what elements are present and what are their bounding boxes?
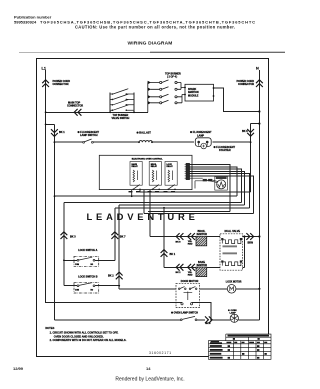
svg-text:LAMP SWITCH: LAMP SWITCH: [80, 134, 98, 137]
svg-text:12/99: 12/99: [13, 366, 24, 371]
svg-text:CONNECTOR: CONNECTOR: [238, 83, 254, 86]
svg-text:BK 7: BK 7: [120, 236, 126, 239]
svg-text:BK 5: BK 5: [206, 323, 212, 325]
svg-text:NO: NO: [91, 289, 94, 291]
svg-text:NO: NO: [91, 264, 94, 266]
svg-text:CAUTION: Use the part number: CAUTION: Use the part number on all orde…: [75, 25, 236, 30]
svg-text:( 2 OF 4 ): ( 2 OF 4 ): [167, 76, 177, 79]
svg-text:LOCK SWITCH B: LOCK SWITCH B: [78, 275, 98, 278]
svg-text:RED: RED: [188, 244, 193, 246]
svg-text:LAMP: LAMP: [197, 134, 204, 137]
svg-text:VALVE SWITCH: VALVE SWITCH: [112, 117, 130, 120]
svg-text:L1: L1: [42, 66, 46, 70]
svg-text:BK 6: BK 6: [242, 130, 248, 133]
svg-text:MODULE: MODULE: [188, 95, 199, 98]
svg-text:LEADVENTURE: LEADVENTURE: [87, 211, 199, 222]
svg-text:OVEN DOOR CLOSED AND UNLOCKED.: OVEN DOOR CLOSED AND UNLOCKED.: [54, 334, 104, 338]
svg-text:LOCK SWITCH A: LOCK SWITCH A: [78, 249, 97, 252]
svg-text:RELAY: RELAY: [151, 165, 158, 168]
svg-text:BK 3: BK 3: [70, 236, 76, 239]
svg-text:2. COMPONENTS WITH ✱ DO NOT A: 2. COMPONENTS WITH ✱ DO NOT APPEAR ON AL…: [50, 338, 127, 342]
svg-text:RED: RED: [188, 274, 193, 276]
svg-text:LOCK MOTOR: LOCK MOTOR: [226, 281, 242, 283]
svg-text:CONNECTOR: CONNECTOR: [67, 105, 83, 108]
svg-text:BK 1: BK 1: [59, 131, 65, 134]
svg-text:316002171: 316002171: [149, 351, 172, 355]
svg-text:CONNECTOR: CONNECTOR: [53, 83, 69, 86]
svg-text:N: N: [256, 66, 259, 70]
svg-text:COM: COM: [75, 289, 80, 291]
svg-text:RELAY: RELAY: [132, 165, 139, 168]
svg-text:IGNITOR: IGNITOR: [197, 264, 208, 267]
svg-text:ELECTRONIC OVEN CONTROL: ELECTRONIC OVEN CONTROL: [132, 159, 164, 161]
svg-text:RELAY: RELAY: [167, 165, 174, 168]
svg-text:✱ BALLAST: ✱ BALLAST: [137, 131, 152, 135]
svg-text:NOTES: NOTES: [45, 326, 54, 330]
svg-text:DUAL VALVE: DUAL VALVE: [225, 230, 241, 233]
svg-text:14: 14: [146, 366, 151, 371]
svg-text:COM: COM: [75, 264, 80, 266]
svg-text:WIRING DIAGRAM: WIRING DIAGRAM: [127, 41, 172, 47]
svg-text:IGNITOR: IGNITOR: [197, 233, 208, 236]
svg-text:BRN: BRN: [248, 242, 254, 245]
svg-text:BK 1: BK 1: [170, 253, 176, 256]
svg-text:BK 2: BK 2: [108, 275, 114, 278]
svg-text:STARTER: STARTER: [219, 149, 231, 152]
svg-text:✱ OVEN LAMP SWITCH: ✱ OVEN LAMP SWITCH: [171, 312, 198, 315]
svg-text:DOOR MOTOR: DOOR MOTOR: [181, 280, 199, 283]
svg-text:BK 8: BK 8: [176, 241, 182, 243]
svg-text:1. CIRCUIT SHOWN WITH ALL CON: 1. CIRCUIT SHOWN WITH ALL CONTROLS SET T…: [50, 331, 119, 335]
svg-text:Rendered by LeadVenture, Inc.: Rendered by LeadVenture, Inc.: [115, 377, 184, 383]
svg-text:BK 2: BK 2: [176, 272, 182, 274]
svg-text:5995330924: 5995330924: [14, 20, 37, 25]
svg-text:LAMP: LAMP: [230, 311, 237, 314]
